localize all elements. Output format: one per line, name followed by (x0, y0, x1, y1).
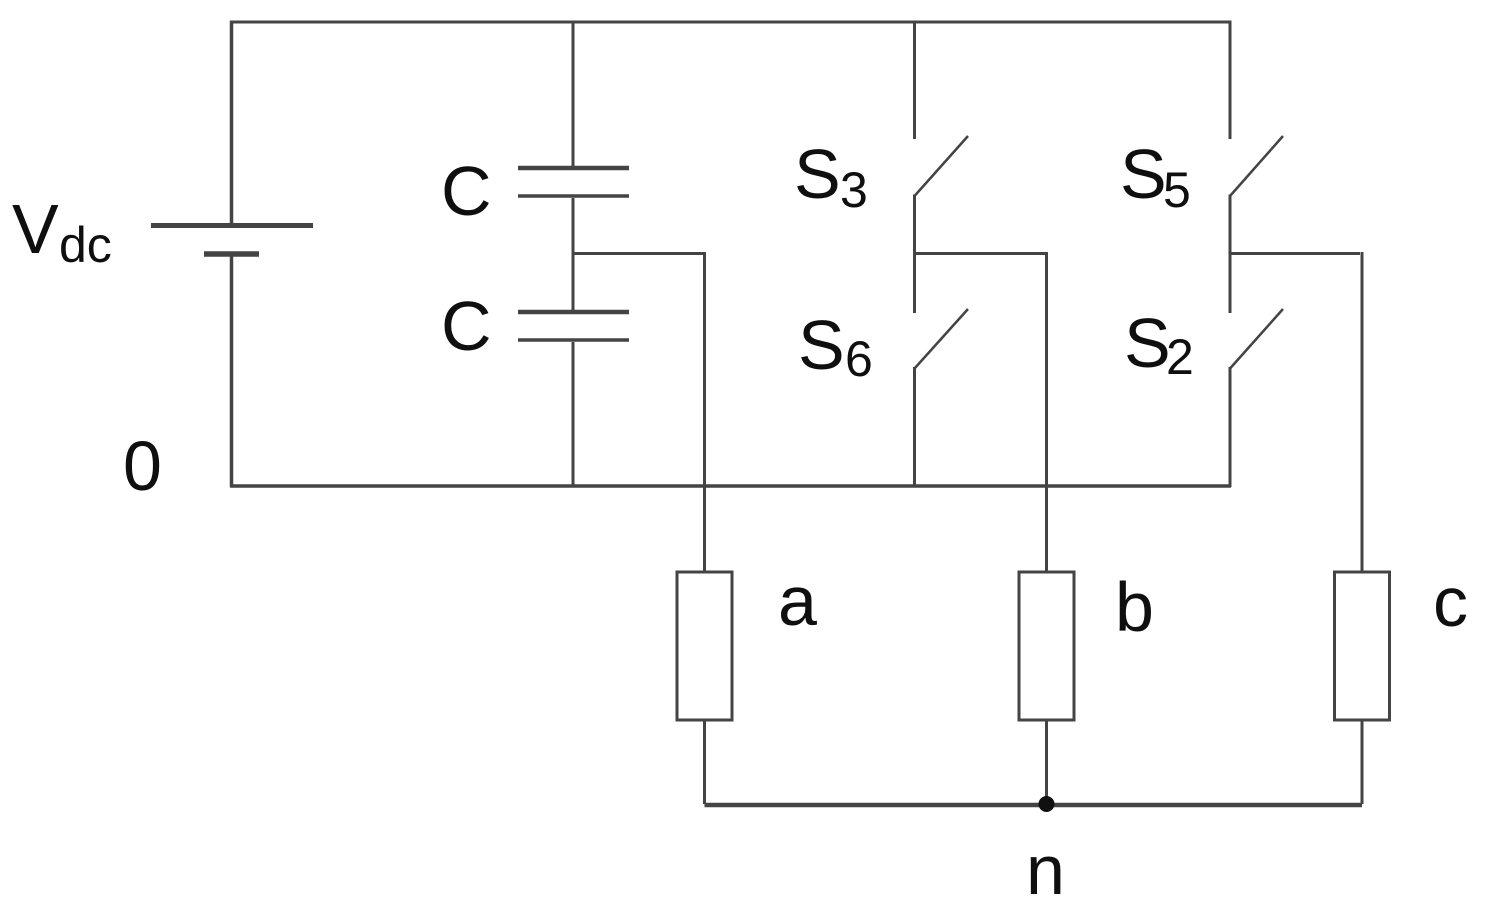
load b body (1019, 572, 1074, 720)
switch S2 blade (1230, 309, 1283, 369)
wire leg2 midpoint to phase c (1230, 252, 1360, 255)
capacitor C2 top plate (518, 310, 629, 315)
svg-text:0: 0 (123, 427, 162, 505)
svg-text:dc: dc (59, 217, 112, 273)
capacitor C1 bottom plate (518, 194, 629, 198)
wire capacitor midpoint to phase a (573, 252, 703, 255)
wire phase c vertical (1361, 252, 1364, 572)
svg-text:V: V (12, 190, 59, 268)
switch S6 blade (915, 309, 969, 369)
battery Vdc long plate (151, 223, 313, 228)
svg-text:S: S (794, 135, 841, 213)
load a body (677, 572, 732, 720)
wire bottom rail (0 bus) (230, 484, 1231, 488)
wire leg2 middle (1229, 195, 1232, 314)
wire leg1 middle (913, 195, 916, 314)
wire top rail (+ bus) (230, 21, 1231, 24)
capacitor C1 top plate (518, 166, 629, 171)
svg-text:b: b (1115, 568, 1154, 646)
wire leg1 bottom (913, 367, 916, 487)
svg-text:c: c (1433, 563, 1468, 641)
svg-text:C: C (441, 287, 492, 365)
wire leg2 bottom (1229, 367, 1232, 487)
switch S3 blade (915, 136, 969, 196)
svg-text:S: S (798, 306, 845, 384)
wire phase b vertical (1045, 252, 1048, 572)
wire phase a vertical (703, 252, 706, 572)
capacitor C2 bottom plate (518, 338, 629, 342)
wire load b to node rail (1045, 720, 1048, 804)
svg-text:5: 5 (1163, 162, 1191, 218)
svg-text:a: a (778, 562, 817, 640)
svg-text:6: 6 (845, 331, 873, 387)
wire leg2 top (1229, 21, 1232, 140)
svg-text:2: 2 (1166, 329, 1194, 385)
wire neutral rail n (705, 803, 1363, 808)
load c body (1335, 572, 1390, 720)
wire battery bottom lead (230, 256, 234, 487)
wire capacitor branch top (572, 21, 575, 167)
svg-text:S: S (1124, 304, 1171, 382)
svg-text:n: n (1026, 831, 1065, 909)
wire load c to node rail (1361, 720, 1364, 804)
wire leg1 top (913, 21, 916, 140)
svg-text:C: C (441, 152, 492, 230)
wire battery top lead (230, 21, 234, 224)
svg-text:S: S (1120, 135, 1167, 213)
junction node n dot (1039, 796, 1055, 812)
battery Vdc short plate (204, 251, 259, 257)
wire load a to node rail (703, 720, 706, 804)
wire between capacitors (572, 198, 575, 310)
svg-text:3: 3 (840, 162, 868, 218)
switch S5 blade (1230, 136, 1283, 196)
wire leg1 midpoint to phase b (915, 252, 1046, 255)
wire capacitor branch bottom (572, 342, 575, 487)
